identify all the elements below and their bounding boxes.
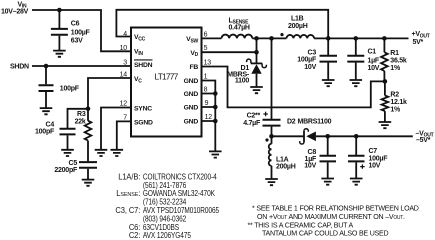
capacitor C4 [60, 129, 76, 150]
svg-text:GND: GND [184, 119, 199, 126]
svg-text:C3: C3 [308, 49, 317, 56]
svg-text:7: 7 [123, 114, 127, 121]
wire VC to C4 [68, 109, 89, 128]
resistor R3 [85, 121, 92, 141]
ground C4 [61, 150, 74, 156]
junction R1 tap [382, 36, 387, 41]
U1 left pin names [134, 34, 153, 126]
svg-text:12: 12 [205, 114, 213, 121]
inductor L1B [287, 35, 315, 38]
diode D1 MBRS1100 (schottky, vertical) [247, 38, 267, 87]
ground shutdown cap [40, 108, 53, 114]
ground C5 [82, 180, 95, 186]
svg-text:GND: GND [184, 78, 199, 85]
R3 value labels [75, 111, 86, 126]
junction C1 tap [354, 36, 359, 41]
capacitor C5 [79, 162, 97, 180]
svg-text:C6: C6 [71, 20, 80, 27]
svg-text:C1: C1 [368, 48, 377, 55]
capacitor C1 [347, 38, 364, 79]
svg-text:MBRS1100: MBRS1100 [298, 118, 332, 125]
U1 pin numbers left [120, 31, 128, 122]
resistor R1 [381, 38, 388, 81]
resistor R2 [382, 81, 389, 122]
capacitor C7 [348, 136, 365, 178]
svg-text:8: 8 [204, 87, 208, 94]
svg-text:4.7µF: 4.7µF [243, 120, 261, 127]
U1 pin numbers right [204, 32, 213, 122]
junction C6 tap [57, 8, 62, 13]
svg-text:10V: 10V [369, 162, 381, 169]
svg-text:1%: 1% [390, 106, 401, 113]
wire -V rail left [272, 135, 304, 137]
ground C3 [322, 80, 335, 86]
svg-text:10V: 10V [304, 163, 316, 170]
C5 value labels [54, 160, 78, 174]
svg-text:COILTRONICS CTX200-4: COILTRONICS CTX200-4 [143, 173, 217, 182]
ground R2 [379, 122, 392, 128]
svg-text:5: 5 [204, 45, 208, 52]
L1A value labels [276, 156, 296, 170]
D1 labels [227, 65, 250, 84]
svg-text:L1A/B:: L1A/B: [118, 172, 140, 181]
svg-text:1: 1 [204, 74, 208, 81]
svg-text:(561) 241-7876: (561) 241-7876 [143, 181, 186, 190]
svg-text:4: 4 [123, 31, 127, 38]
wire -V rail right [316, 135, 413, 137]
svg-text:C2:: C2: [129, 231, 140, 239]
svg-text:(803) 946-0362: (803) 946-0362 [143, 215, 186, 224]
C6 value labels [71, 20, 91, 44]
wire VIN to pin10 [32, 10, 131, 51]
note footnotes [248, 205, 419, 238]
junction C3 tap [326, 36, 331, 41]
ground C8 [321, 179, 334, 185]
C1 value labels [368, 48, 380, 72]
svg-text:C7: C7 [369, 148, 378, 155]
svg-text:63V: 63V [71, 37, 83, 44]
C4 value labels [35, 121, 55, 135]
junction SHDN cap tap [44, 64, 49, 69]
svg-text:TANTALUM CAP COULD ALSO BE USE: TANTALUM CAP COULD ALSO BE USED [262, 230, 389, 238]
svg-text:100pF: 100pF [60, 86, 80, 93]
svg-text:** THIS IS A CERAMIC CAP, BUT: ** THIS IS A CERAMIC CAP, BUT A [248, 221, 354, 229]
wire FB network [202, 67, 385, 108]
diode D2 MBRS1100 (schottky, horizontal) [300, 129, 316, 144]
inductor L1A [269, 136, 272, 179]
U1 internal SHDN overbar [134, 59, 153, 61]
inductor LSENSE [222, 35, 253, 39]
svg-text:ON +VOUT AND MAXIMUM CURRENT O: ON +VOUT AND MAXIMUM CURRENT ON –VOUT. [257, 213, 405, 221]
svg-text:AVX 1206YG475: AVX 1206YG475 [143, 232, 191, 239]
U1 right pin names [184, 36, 199, 126]
junction C7 tap [354, 134, 359, 139]
wire pin5 VD to D1 [202, 51, 257, 53]
svg-text:C2**: C2** [247, 113, 261, 120]
junction GND pin8 [213, 91, 218, 96]
svg-text:FB: FB [189, 64, 198, 71]
wire pin6 VSW to LSENSE [202, 37, 222, 39]
svg-text:1100: 1100 [235, 77, 250, 84]
svg-text:100µF: 100µF [71, 29, 91, 36]
svg-text:C3, C7:: C3, C7: [115, 206, 140, 215]
wire SGND [117, 121, 131, 149]
capacitor C8 [320, 136, 337, 178]
C2 value labels [243, 113, 261, 128]
svg-text:GND: GND [184, 91, 199, 98]
junction C2 riser tap [269, 36, 274, 41]
wire R3 to C5 [87, 141, 89, 162]
wire +5V rail [252, 37, 408, 39]
svg-text:14: 14 [120, 71, 128, 78]
capacitor 100pF (shutdown) [39, 66, 54, 108]
svg-text:* SEE TABLE 1 FOR RELATIONSHIP: * SEE TABLE 1 FOR RELATIONSHIP BETWEEN L… [252, 205, 419, 213]
wire VC [88, 78, 131, 121]
svg-text:10: 10 [120, 45, 128, 52]
junction VC node [86, 107, 91, 112]
junction D1 tap [254, 36, 259, 41]
capacitor C2 [263, 120, 281, 137]
junction C8 tap [325, 134, 330, 139]
note parts list [115, 172, 219, 240]
C3 value labels [297, 49, 317, 71]
node +VOUT label [412, 31, 430, 46]
svg-text:9: 9 [205, 100, 209, 107]
wire SHDN [32, 65, 131, 67]
svg-text:D2: D2 [287, 118, 296, 125]
svg-text:L1B: L1B [291, 16, 304, 23]
svg-text:GOWANDA SML32-470K: GOWANDA SML32-470K [143, 190, 215, 199]
U1 part number label [155, 72, 179, 82]
junction GND pin9 [213, 105, 218, 110]
100pF value label [60, 86, 80, 93]
capacitor C6 [51, 10, 68, 51]
svg-text:1%: 1% [390, 65, 401, 72]
svg-text:SYNC: SYNC [134, 106, 152, 113]
LSENSE value labels [229, 17, 250, 31]
ground C1 [350, 80, 363, 86]
svg-text:10V: 10V [368, 65, 380, 72]
svg-text:–5V*: –5V* [416, 137, 431, 144]
svg-text:R3: R3 [77, 111, 86, 118]
ground SGND [111, 150, 124, 156]
ground C6 [53, 51, 66, 57]
svg-text:13: 13 [204, 60, 212, 67]
svg-text:3: 3 [123, 59, 127, 66]
node SHDN label [10, 63, 29, 70]
svg-text:2200pF: 2200pF [54, 167, 78, 174]
svg-text:100pF: 100pF [35, 128, 55, 135]
svg-text:SHDN: SHDN [10, 63, 29, 70]
node -V junction [269, 134, 274, 139]
D2 labels [287, 118, 332, 125]
C7 plus sign [360, 164, 364, 168]
svg-text:(716) 532-2234: (716) 532-2234 [143, 198, 186, 207]
svg-text:12: 12 [120, 101, 128, 108]
wire C2 riser [271, 38, 273, 119]
ground D1 [250, 87, 263, 93]
svg-text:SGND: SGND [134, 119, 153, 126]
svg-text:5V*: 5V* [413, 39, 424, 46]
ground SYNC [95, 150, 108, 156]
wire VCC bootstrap to +5V rail [116, 10, 328, 39]
L1B phase dot [280, 33, 283, 36]
node -VOUT label [416, 130, 434, 144]
svg-text:AVX TPSD107M010R0065: AVX TPSD107M010R0065 [143, 206, 219, 215]
L1B value labels [288, 16, 308, 30]
node VIN label [1, 1, 29, 15]
svg-text:R2: R2 [390, 92, 399, 99]
junction GND pin12 [213, 119, 218, 124]
junction pin5-D1 [254, 50, 259, 55]
op-amp U1 LT1777 IC body [131, 28, 202, 137]
wire GND pins bus [202, 81, 216, 152]
capacitor C3 [320, 38, 338, 79]
L1A phase dot [265, 138, 268, 141]
svg-text:LT1777: LT1777 [155, 72, 179, 82]
svg-text:0.47µH: 0.47µH [229, 25, 250, 32]
R1 value labels [390, 50, 407, 72]
svg-text:200µH: 200µH [288, 23, 308, 30]
junction FB divider tap [383, 79, 388, 84]
ground GND bus [209, 151, 222, 157]
svg-text:10V: 10V [304, 64, 316, 71]
C2 plus sign [263, 112, 267, 116]
svg-text:GND: GND [184, 105, 199, 112]
svg-text:10V–28V: 10V–28V [1, 8, 29, 15]
C7 value labels [369, 148, 389, 169]
R2 value labels [390, 92, 407, 114]
wire SYNC [101, 108, 131, 150]
svg-text:63CV1D0BS: 63CV1D0BS [143, 223, 179, 232]
svg-text:L1A: L1A [276, 156, 289, 163]
svg-text:36.5k: 36.5k [390, 58, 407, 65]
svg-text:12.1k: 12.1k [390, 99, 407, 106]
svg-text:22k: 22k [75, 119, 86, 126]
svg-text:200µH: 200µH [276, 163, 296, 170]
svg-text:SHDN: SHDN [134, 62, 153, 69]
svg-text:100µF: 100µF [297, 57, 317, 64]
svg-text:1µF: 1µF [368, 57, 380, 64]
svg-text:R1: R1 [390, 50, 399, 57]
ground L1A [265, 179, 278, 185]
C8 value labels [304, 149, 317, 170]
ground C7 [350, 179, 363, 185]
